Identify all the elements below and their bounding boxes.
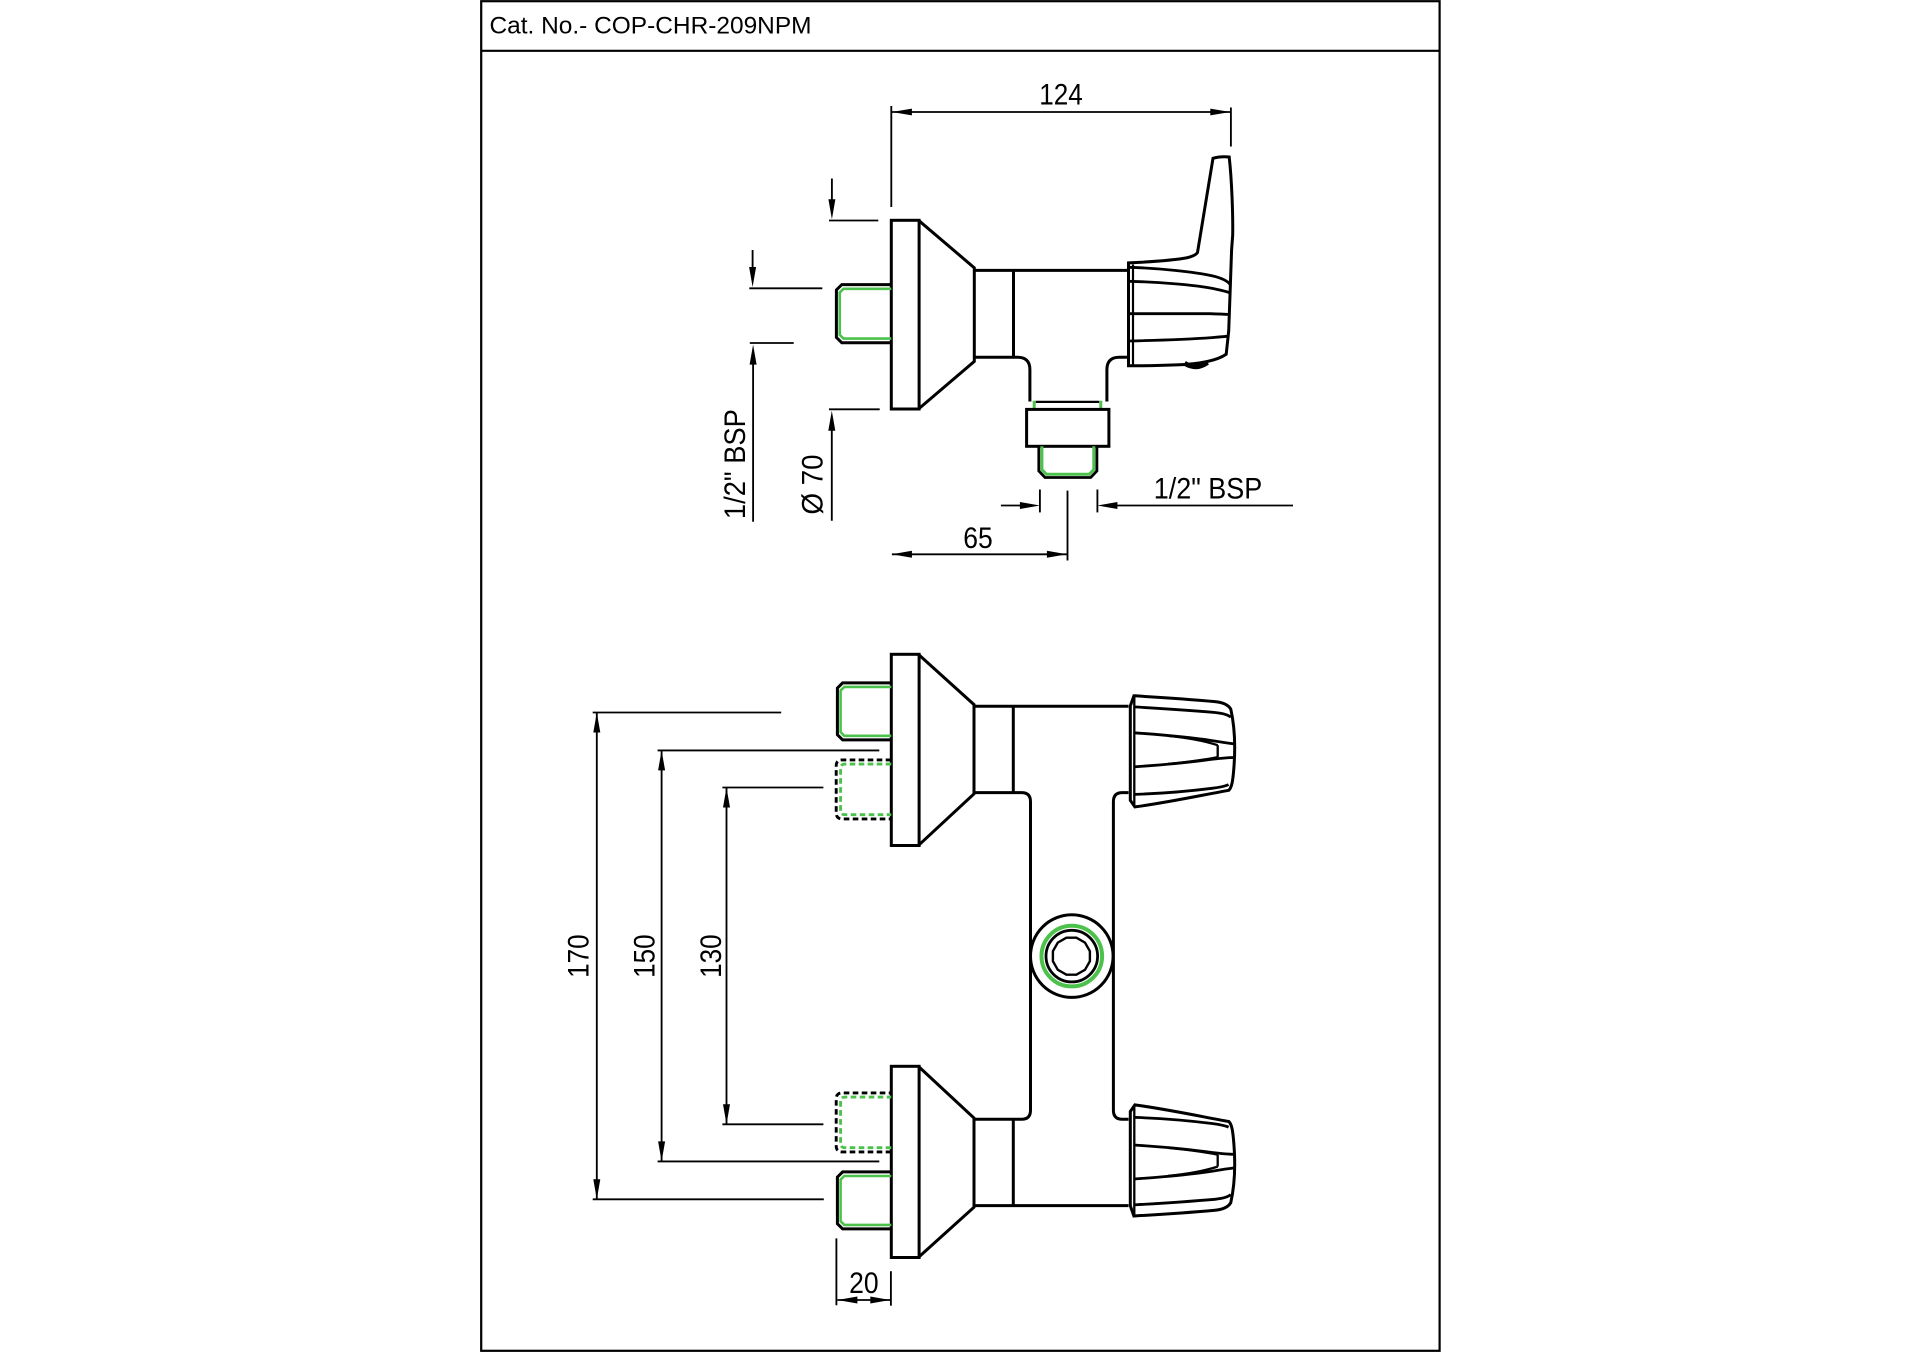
body right bar with fillets <box>1113 793 1128 1120</box>
svg-text:Cat. No.- COP-CHR-209NPM: Cat. No.- COP-CHR-209NPM <box>490 13 812 40</box>
svg-text:1/2" BSP: 1/2" BSP <box>1154 473 1263 506</box>
title separator <box>481 50 1439 52</box>
dim 65 left arrow <box>892 551 912 558</box>
outlet stub green thread (side view) <box>1042 446 1094 474</box>
dim 20 left extension line <box>835 1238 837 1305</box>
flange top extension line <box>829 220 878 222</box>
outlet nut (side view) <box>1027 409 1109 446</box>
body bottom edge right with fillet into outlet (side view) <box>1107 357 1128 401</box>
svg-text:150: 150 <box>629 934 662 978</box>
outlet left leader arrow <box>1001 505 1021 507</box>
dim 150 bottom extension line <box>658 1160 880 1162</box>
dim 150 top extension line <box>658 749 880 751</box>
dim 20 arrows <box>837 1297 857 1304</box>
seal ring green edges (side view) <box>1034 401 1101 410</box>
dim 170 top extension line <box>593 712 782 714</box>
dim 170 bottom extension line <box>593 1198 824 1200</box>
svg-text:124: 124 <box>1039 78 1083 111</box>
knob left facet band (side view) <box>1132 265 1134 365</box>
top valve assembly <box>836 654 1234 845</box>
dim 130 arrows <box>723 788 730 808</box>
knob ridge line 3 (side view) <box>1129 312 1229 316</box>
body bottom edge left with fillet into outlet (side view) <box>974 357 1030 401</box>
flange top down arrow <box>831 179 833 201</box>
frame border <box>481 1 1439 1351</box>
svg-text:Ø 70: Ø 70 <box>796 455 829 515</box>
handle knob and lever outline (side view) <box>1129 157 1233 366</box>
knob ridge line 2 (side view) <box>1129 281 1230 293</box>
boss green ring <box>1042 926 1103 987</box>
body left bar with fillets <box>974 793 1031 1120</box>
dim 130 bottom extension line <box>722 1123 823 1125</box>
svg-text:170: 170 <box>563 934 596 978</box>
dim 65 right extension line <box>1067 491 1069 561</box>
knob foot (side view) <box>1185 362 1208 366</box>
bottom valve assembly (mirrored) <box>836 1066 1234 1257</box>
dim 130 line <box>726 788 728 1125</box>
boss hex socket polygon <box>1053 938 1090 975</box>
wall plate (side view) <box>891 220 919 409</box>
body top edge (side view) <box>974 269 1128 272</box>
inlet top extension line <box>749 287 822 289</box>
svg-text:130: 130 <box>695 934 728 978</box>
dim 124 left extension line <box>890 106 892 207</box>
dim 20 line <box>837 1299 890 1301</box>
boss outer circle <box>1031 915 1114 998</box>
escutcheon cone (side view) <box>919 221 974 409</box>
dim 124 right extension line <box>1230 108 1232 147</box>
dim 65 right arrow <box>1047 551 1067 558</box>
svg-text:1/2" BSP: 1/2" BSP <box>719 409 752 519</box>
dim 65 line <box>892 553 1067 555</box>
dia 70 dim line with up arrow <box>828 411 835 431</box>
outlet left extension line <box>1039 490 1041 513</box>
body seam (side view) <box>1012 270 1015 357</box>
knob ridge line 4 (side view) <box>1129 336 1228 341</box>
svg-text:20: 20 <box>849 1267 879 1300</box>
dim 124 line <box>892 111 1230 113</box>
outlet stub black outline (side view) <box>1039 446 1097 477</box>
1/2 BSP vertical dim line with up arrow <box>750 345 757 365</box>
dim 150 line <box>661 750 663 1161</box>
dim 124 right arrow <box>1210 109 1230 116</box>
dim 170 line <box>596 713 598 1200</box>
inlet top down arrow <box>752 250 754 268</box>
svg-text:65: 65 <box>963 522 993 555</box>
dim 170 arrows <box>593 713 600 733</box>
outlet right leader arrow <box>1117 505 1293 507</box>
dim 20 right extension line <box>890 1271 892 1306</box>
inlet nipple black outline (side view) <box>836 285 891 343</box>
outlet right extension line <box>1096 490 1098 513</box>
inlet nipple green thread (side view) <box>840 289 892 339</box>
boss middle circle <box>1046 930 1098 982</box>
inlet bottom extension line <box>750 342 794 344</box>
dim 130 top extension line <box>722 787 823 789</box>
dim 124 left arrow <box>892 109 912 116</box>
seal ring top line (side view) <box>1036 401 1099 403</box>
dim 150 arrows <box>658 750 665 770</box>
knob ridge line 1 (side view) <box>1129 267 1230 284</box>
plate bottom extension line <box>829 408 880 410</box>
